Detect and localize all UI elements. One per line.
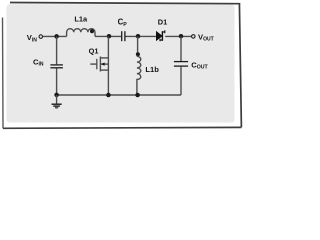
svg-text:D1: D1 <box>158 17 167 26</box>
Q1 body arrow <box>101 62 104 65</box>
Q1 gate bar <box>96 59 98 70</box>
wire CIN to ground rail <box>56 68 58 95</box>
frame left border <box>2 18 5 129</box>
diode D1 <box>156 30 165 41</box>
wire CP node down to L1b <box>137 36 139 56</box>
capacitor CIN <box>50 65 63 68</box>
node Q1 drain junction <box>107 34 112 39</box>
output terminal <box>192 35 196 39</box>
wire L1a to CP <box>95 35 121 37</box>
frame bottom border <box>3 126 242 129</box>
inductor L1a <box>67 29 95 37</box>
Q1 channel bar <box>99 57 101 72</box>
L1a polarity dot <box>90 29 94 33</box>
wire VIN to L1a <box>43 35 67 37</box>
svg-text:L1a: L1a <box>74 15 88 24</box>
figure panel background <box>7 4 235 122</box>
Q1 top stub <box>100 57 108 59</box>
wire CP to D1 <box>126 35 157 37</box>
frame top border <box>10 3 240 4</box>
node VIN/CIN junction <box>54 34 59 39</box>
transistor Q1 <box>90 36 108 95</box>
input terminal <box>39 35 43 39</box>
node VOUT/COUT junction <box>179 34 184 39</box>
wire D1 to VOUT <box>165 35 191 37</box>
Q1 middle stub <box>100 63 108 65</box>
wire VIN node down to CIN <box>56 36 58 64</box>
frame right border <box>239 3 241 127</box>
capacitor CP <box>122 31 125 41</box>
ground rail <box>57 94 181 96</box>
node ground/CIN junction <box>54 93 59 98</box>
L1b polarity dot <box>136 52 140 56</box>
node Q1 source junction <box>106 93 111 98</box>
Q1 bottom stub <box>100 69 108 71</box>
capacitor COUT <box>174 62 188 67</box>
ground <box>52 95 62 108</box>
wire VOUT node down to COUT <box>180 36 182 61</box>
Q1 drain/source vertical <box>107 36 109 95</box>
node L1b bottom junction <box>135 93 140 98</box>
Q1 gate lead <box>90 63 97 65</box>
node CP/L1b junction <box>136 34 141 39</box>
wire COUT to ground rail <box>180 67 182 95</box>
svg-text:Q1: Q1 <box>89 46 99 55</box>
svg-text:L1b: L1b <box>145 65 159 74</box>
inductor L1b <box>137 56 141 95</box>
